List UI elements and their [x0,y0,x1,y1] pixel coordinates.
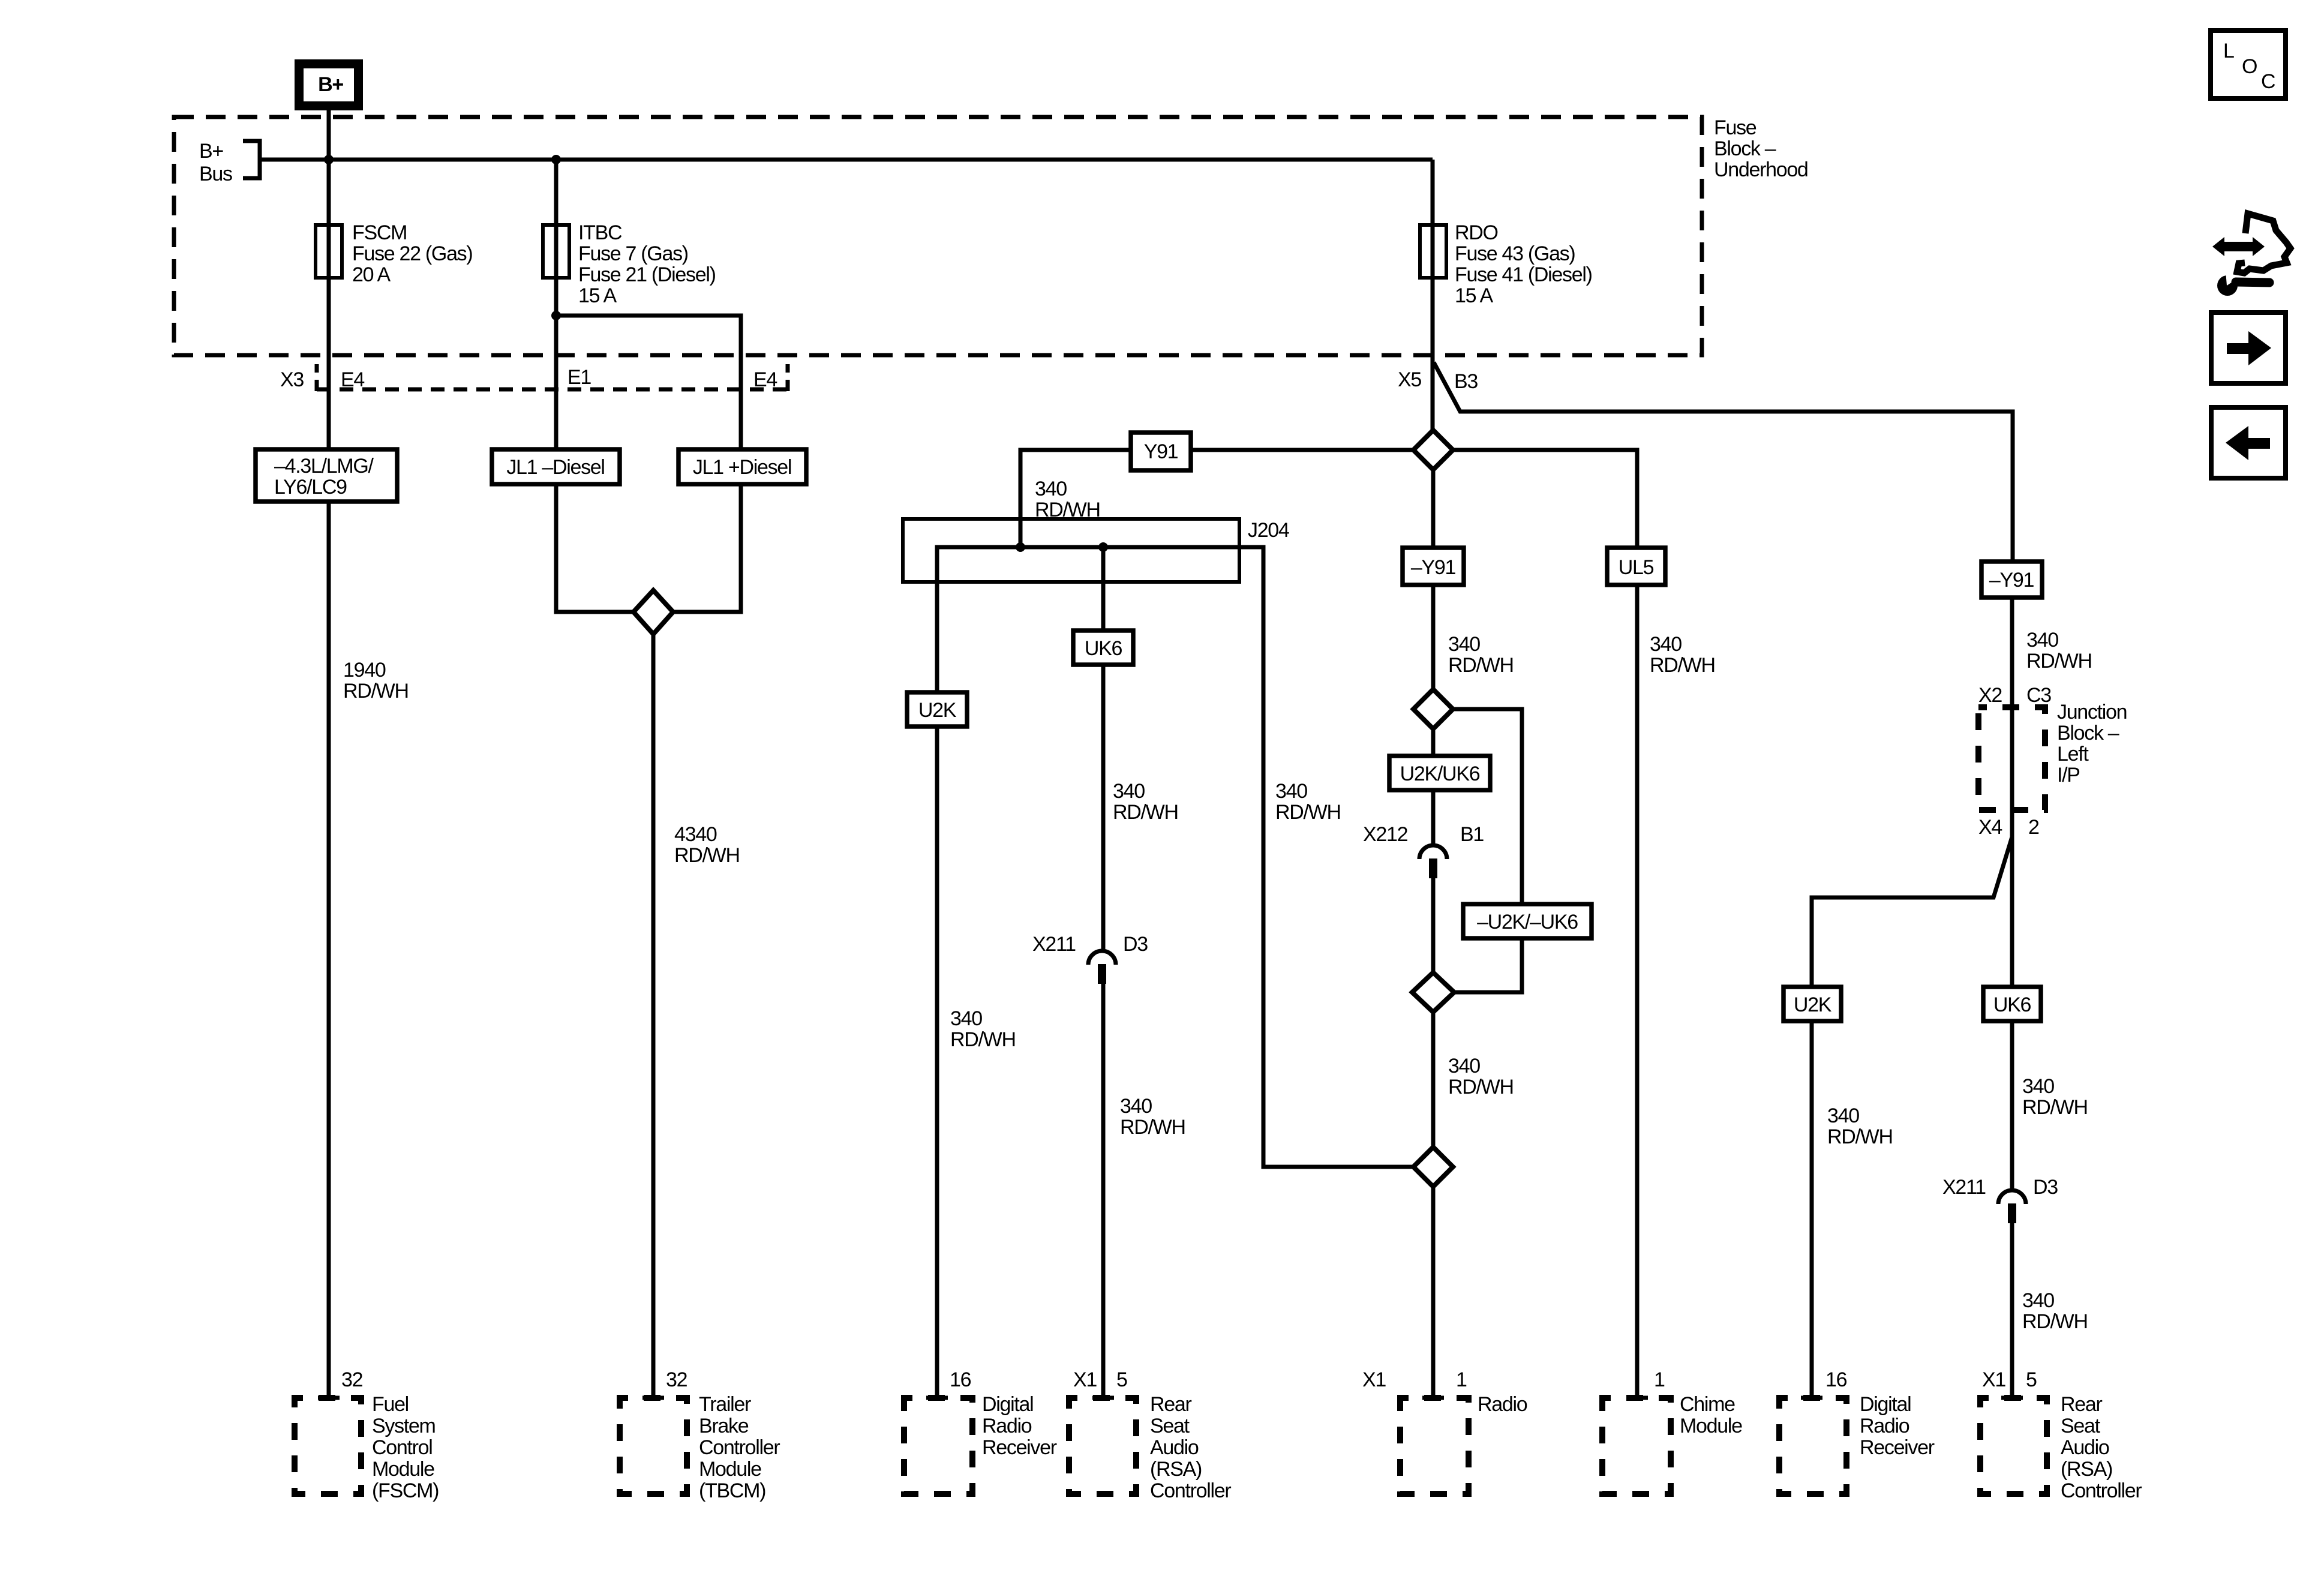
wire splice down to TBCM [651,634,656,1398]
junction dot J204 feed [1016,542,1025,552]
svg-text:Trailer: Trailer [699,1393,751,1416]
svg-text:–Y91: –Y91 [1411,556,1456,579]
wire label 340 RD/WH (UL5 chain) [1650,633,1715,677]
wire UL5 branch [1453,450,1637,548]
svg-text:RD/WH: RD/WH [2022,1096,2088,1119]
svg-text:RD/WH: RD/WH [1650,654,1715,677]
svg-text:X211: X211 [1032,933,1076,956]
wire X211 right to RSA controller [2010,1223,2014,1398]
terminal bar RSA (right) [2001,1396,2023,1400]
terminal bar Radio [1422,1396,1444,1400]
svg-text:I/P: I/P [2057,764,2080,786]
option box U2K/UK6 [1389,756,1490,790]
svg-text:32: 32 [341,1368,363,1391]
svg-text:Receiver: Receiver [982,1436,1057,1459]
svg-text:Control: Control [372,1436,433,1459]
node B+ Bus label [199,140,232,185]
svg-text:4340: 4340 [674,823,717,846]
fuse RDO Fuse 43 (Gas) / Fuse 41 (Diesel) 15 A [1420,221,1592,307]
svg-text:Fuse 21 (Diesel): Fuse 21 (Diesel) [578,263,716,286]
wire Y91 branch horizontal [1020,450,1413,547]
svg-text:Module: Module [699,1458,761,1481]
wire RDO fuse down to diamond [1431,278,1435,430]
svg-text:J204: J204 [1248,519,1289,542]
svg-text:Rear: Rear [2061,1393,2102,1416]
engine option box -4.3L/LMG/LY6/LC9 [256,449,397,502]
option box U2K (right) [1783,987,1841,1021]
svg-text:RD/WH: RD/WH [1275,801,1341,824]
svg-text:Bus: Bus [199,163,232,185]
terminal bar FSCM [318,1396,340,1400]
svg-text:Controller: Controller [2061,1479,2142,1502]
svg-text:32: 32 [666,1368,687,1391]
option box UL5 [1607,548,1665,585]
svg-text:Audio: Audio [2061,1436,2109,1459]
wire label 340 RD/WH (U2K right) [1827,1104,1893,1148]
svg-text:16: 16 [950,1368,971,1391]
wire UK6 right down [2010,1021,2014,1189]
wire S3 to Radio [1431,1187,1436,1398]
svg-text:–U2K/–UK6: –U2K/–UK6 [1477,911,1578,933]
svg-text:UK6: UK6 [1085,637,1122,660]
svg-text:Junction: Junction [2057,701,2127,724]
svg-text:Fuel: Fuel [372,1393,409,1416]
wire through junction block [2010,707,2014,810]
svg-text:FSCM: FSCM [352,221,407,244]
component box Digital Radio Receiver (right) [1779,1393,1935,1494]
battery terminal B+ [299,64,359,106]
wire label 340 RD/WH (UK6 right) [2022,1075,2088,1119]
svg-text:X1: X1 [1982,1368,2005,1391]
svg-text:Fuse 41 (Diesel): Fuse 41 (Diesel) [1455,263,1592,286]
wire U2K/UK6 to X212 [1431,790,1436,844]
wire label 4340 RD/WH [674,823,740,867]
option box UK6 (left) [1073,631,1133,665]
wire B+ bus horizontal [260,158,1433,162]
svg-text:B1: B1 [1460,823,1484,846]
splice diamond S2a [1413,689,1453,729]
svg-text:B3: B3 [1454,370,1478,393]
terminal bar TBCM [642,1396,664,1400]
svg-text:B+: B+ [199,140,223,163]
svg-text:15 A: 15 A [578,284,617,307]
wire J204 right column down and to diamond S3 [1263,547,1413,1167]
svg-text:X5: X5 [1398,368,1421,391]
svg-text:(RSA): (RSA) [1150,1458,1202,1481]
svg-text:C3: C3 [2026,684,2051,707]
svg-text:1940: 1940 [343,659,386,682]
svg-text:RD/WH: RD/WH [1827,1125,1893,1148]
svg-text:2: 2 [2028,816,2039,839]
wire diamond S1 down to -Y91 [1431,470,1436,548]
wire J204 to UK6 chain upper [1101,547,1106,950]
terminal bar RSA (left) [1092,1396,1114,1400]
svg-text:Block –: Block – [2057,722,2119,745]
option box UK6 (right) [1983,987,2041,1021]
svg-text:Fuse: Fuse [1714,116,1756,139]
wire engine box down to FSCM [327,502,331,1398]
svg-text:(TBCM): (TBCM) [699,1479,765,1502]
fuse ITBC Fuse 7 (Gas) / Fuse 21 (Diesel) 15 A [543,221,716,307]
junction dot J204 UK6 tap [1098,542,1108,552]
svg-text:RD/WH: RD/WH [1113,801,1178,824]
svg-text:Radio: Radio [1860,1415,1909,1437]
svg-text:RD/WH: RD/WH [2022,1310,2088,1333]
wire -Y91 right down to junction block [2010,598,2014,707]
wire JL1 +Diesel down to splice diamond [673,484,741,612]
svg-text:340: 340 [1035,478,1067,500]
svg-text:Radio: Radio [982,1415,1032,1437]
svg-text:340: 340 [1120,1095,1152,1118]
wire S2a to U2K/UK6 box [1431,729,1436,756]
wire ITBC feed [554,160,559,225]
option box JL1 -Diesel [492,449,620,484]
wire UL5 to chime module [1635,585,1640,1398]
inline connector X211 D3 (left) [1032,933,1148,984]
svg-text:JL1 –Diesel: JL1 –Diesel [506,456,604,479]
svg-text:1: 1 [1456,1368,1467,1391]
splice pack J204 [903,519,1289,631]
svg-text:LY6/LC9: LY6/LC9 [274,476,347,499]
terminal bar chime module [1626,1396,1648,1400]
svg-text:RDO: RDO [1455,221,1498,244]
svg-text:RD/WH: RD/WH [1448,654,1514,677]
svg-text:Block –: Block – [1714,137,1776,160]
junction dot FSCM tap [324,155,334,164]
svg-text:16: 16 [1825,1368,1847,1391]
splice diamond S3 [1413,1147,1453,1187]
wire X211 to RSA controller [1101,984,1106,1398]
svg-text:RD/WH: RD/WH [343,680,409,703]
wire JL1 -Diesel down to splice diamond [556,484,633,612]
svg-text:5: 5 [2026,1368,2037,1391]
option box -Y91 (right) [1981,562,2042,598]
fuse block underhood dashed boundary [174,117,1702,355]
option box U2K (left) [907,692,967,727]
backward arrow reference box [2211,407,2286,478]
wire label 340 RD/WH (UK6 chain) [1113,780,1178,824]
component box Digital Radio Receiver (left) [904,1393,1057,1494]
svg-text:340: 340 [1827,1104,1859,1127]
option box Y91 [1131,433,1191,470]
svg-text:340: 340 [2022,1289,2054,1312]
wire ITBC fuse down to JL1 -Diesel [554,278,559,451]
svg-text:(RSA): (RSA) [2061,1458,2112,1481]
svg-text:Module: Module [1680,1415,1742,1437]
wire S2b down to diamond S3 [1431,1012,1436,1147]
option box -U2K/-UK6 [1463,904,1592,938]
component box Rear Seat Audio (RSA) Controller (left) [1069,1393,1231,1502]
splice diamond JL1 [633,590,673,634]
svg-text:Fuse 43 (Gas): Fuse 43 (Gas) [1455,242,1575,265]
svg-text:X2: X2 [1978,684,2002,707]
wire branch diagonal to U2K chain [1812,837,2012,987]
svg-text:340: 340 [2022,1075,2054,1098]
terminal bar digital radio receiver (right) [1801,1396,1822,1400]
wire label 340 RD/WH (right upper) [2026,629,2092,673]
svg-text:UL5: UL5 [1619,556,1654,579]
svg-text:Receiver: Receiver [1860,1436,1935,1459]
svg-text:1: 1 [1654,1368,1665,1391]
forward arrow reference box [2211,313,2286,383]
wire junction block down to UK6 chain [2010,810,2014,987]
svg-text:D3: D3 [2033,1176,2058,1199]
svg-text:–Y91: –Y91 [1989,569,2034,592]
wire label 340 RD/WH (U2K chain) [950,1007,1016,1051]
svg-text:ITBC: ITBC [578,221,622,244]
inline connector X212 B1 [1363,823,1484,878]
svg-text:O: O [2242,55,2257,78]
svg-text:Fuse 7 (Gas): Fuse 7 (Gas) [578,242,688,265]
svg-text:X1: X1 [1362,1368,1386,1391]
svg-text:Left: Left [2057,743,2089,766]
svg-text:15 A: 15 A [1455,284,1493,307]
wire J204 to U2K chain [935,547,939,1398]
wire from B+ terminal down [327,109,331,225]
svg-text:E1: E1 [568,366,591,389]
svg-text:Audio: Audio [1150,1436,1199,1459]
terminal bar digital radio receiver (left) [926,1396,948,1400]
component box Rear Seat Audio (RSA) Controller (right) [1980,1393,2142,1502]
wire label 340 RD/WH (radio chain) [1448,633,1514,677]
svg-text:Brake: Brake [699,1415,749,1437]
svg-text:System: System [372,1415,436,1437]
svg-text:Digital: Digital [1860,1393,1911,1416]
svg-text:Controller: Controller [699,1436,780,1459]
splice diamond S2b [1412,972,1454,1012]
svg-text:Module: Module [372,1458,434,1481]
component box Fuel System Control Module (FSCM) [295,1393,439,1502]
scan tool icon [2212,214,2290,296]
svg-text:(FSCM): (FSCM) [372,1479,439,1502]
svg-text:Underhood: Underhood [1714,158,1808,181]
svg-text:Digital: Digital [982,1393,1033,1416]
svg-text:340: 340 [1113,780,1145,803]
wire FSCM fuse to engine box [327,278,331,451]
component box Radio [1400,1393,1527,1494]
svg-text:U2K: U2K [1794,993,1832,1016]
svg-text:E4: E4 [341,368,364,391]
junction block label [2057,701,2127,786]
connector strip X3/E4 E1 E4 dotted line [317,364,788,391]
svg-text:E4: E4 [753,368,777,391]
svg-text:D3: D3 [1123,933,1148,956]
svg-text:C: C [2261,70,2275,93]
svg-text:X1: X1 [1073,1368,1097,1391]
svg-text:X4: X4 [1978,816,2002,839]
svg-text:340: 340 [2026,629,2058,652]
svg-text:UK6: UK6 [1993,993,2031,1016]
svg-text:–4.3L/LMG/: –4.3L/LMG/ [274,455,374,478]
svg-text:Radio: Radio [1478,1393,1527,1416]
wire branch to JL1 +Diesel [556,316,741,451]
component box Trailer Brake Controller Module (TBCM) [620,1393,780,1502]
svg-text:X3: X3 [280,368,304,391]
svg-text:U2K/UK6: U2K/UK6 [1400,763,1480,785]
svg-text:Controller: Controller [1150,1479,1231,1502]
wire bypass right of U2K/UK6 [1453,709,1522,992]
svg-text:X212: X212 [1363,823,1408,846]
B+ bus bracket [243,141,260,178]
svg-text:JL1 +Diesel: JL1 +Diesel [693,456,791,479]
svg-text:340: 340 [1448,1055,1480,1077]
svg-text:Rear: Rear [1150,1393,1191,1416]
wire bus corner down to RDO fuse [1431,160,1435,225]
fuse block underhood label [1714,116,1808,181]
svg-text:RD/WH: RD/WH [1448,1076,1514,1098]
inline connector X211 D3 (right) [1942,1176,2058,1223]
svg-text:340: 340 [950,1007,982,1030]
wire -Y91 to diamond S2a [1431,585,1436,689]
junction dot JL1 branch [551,311,561,320]
splice diamond S1 (radio feed) [1413,430,1453,470]
wire label 340 RD/WH (below X211 right) [2022,1289,2088,1333]
svg-text:Seat: Seat [1150,1415,1190,1437]
svg-text:Chime: Chime [1680,1393,1735,1416]
wire label 1940 RD/WH [343,659,409,703]
svg-text:B+: B+ [318,73,343,96]
wire label 340 RD/WH (J204 right column) [1275,780,1341,824]
svg-text:20 A: 20 A [352,263,391,286]
svg-text:L: L [2223,40,2234,62]
LOC reference box [2211,31,2286,98]
svg-text:Y91: Y91 [1144,440,1178,463]
svg-text:RD/WH: RD/WH [1120,1116,1185,1139]
wire label 340 RD/WH (Y91 branch) [1035,478,1100,521]
wire label 340 RD/WH (above S3) [1448,1055,1514,1098]
junction block left I/P dashed box [1978,707,2045,810]
svg-text:5: 5 [1116,1368,1127,1391]
svg-text:RD/WH: RD/WH [950,1028,1016,1051]
svg-text:RD/WH: RD/WH [674,844,740,867]
junction dot ITBC tap [551,155,561,164]
svg-text:340: 340 [1448,633,1480,656]
svg-text:U2K: U2K [918,699,957,722]
svg-text:Fuse 22 (Gas): Fuse 22 (Gas) [352,242,472,265]
svg-text:Seat: Seat [2061,1415,2101,1437]
wire label 340 RD/WH (below X211) [1120,1095,1185,1139]
svg-text:X211: X211 [1942,1176,1986,1199]
wire X212 to diamond S2b [1431,878,1436,972]
wire B3 branch diagonal and run to right [1434,362,2013,562]
svg-text:340: 340 [1650,633,1682,656]
component box Chime Module [1602,1393,1742,1494]
wire U2K right to digital radio receiver [1810,1021,1814,1398]
svg-text:340: 340 [1275,780,1307,803]
option box -Y91 (radio chain) [1403,548,1464,585]
option box JL1 +Diesel [678,449,806,484]
fuse FSCM Fuse 22 (Gas) 20 A [316,221,472,286]
svg-text:RD/WH: RD/WH [2026,650,2092,673]
